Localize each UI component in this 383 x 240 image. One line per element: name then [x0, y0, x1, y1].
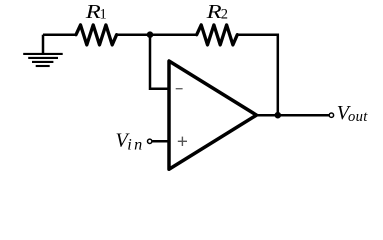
- terminal Vout: [329, 113, 333, 117]
- svg-text:R: R: [206, 1, 223, 23]
- resistor R1: [76, 25, 117, 45]
- label R2: [206, 1, 229, 23]
- label Vin: [116, 129, 145, 153]
- svg-text:in: in: [127, 135, 144, 153]
- label Vout: [337, 102, 368, 125]
- op-amp U1: [169, 61, 257, 169]
- wire output: [257, 114, 330, 117]
- terminal Vin: [148, 139, 152, 143]
- ground: [23, 35, 63, 66]
- svg-text:1: 1: [100, 7, 107, 23]
- wire R1 to R2: [117, 33, 197, 36]
- wire ground to R1: [43, 33, 77, 36]
- wire Vin terminal to non-inverting input: [152, 140, 169, 143]
- node A junction: [147, 31, 154, 38]
- wire R2 to output node (right corner): [237, 35, 277, 116]
- resistor R2: [197, 25, 238, 45]
- svg-text:2: 2: [221, 7, 228, 23]
- label R1: [85, 1, 107, 23]
- wire feedback node A to inverting input: [150, 35, 169, 89]
- node B output junction: [275, 112, 282, 119]
- svg-text:out: out: [348, 109, 368, 125]
